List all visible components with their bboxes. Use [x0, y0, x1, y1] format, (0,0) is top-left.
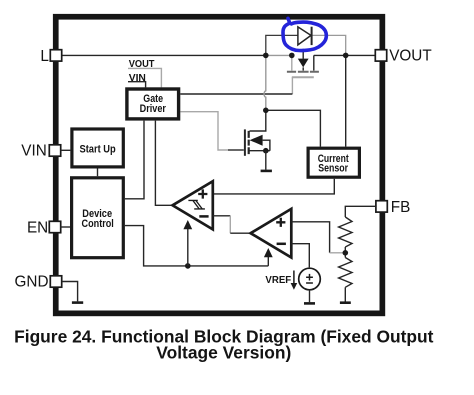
node: switch node junction	[263, 108, 269, 114]
svg-text:Control: Control	[82, 218, 114, 230]
svg-text:VIN: VIN	[21, 143, 47, 160]
blue annotation scribble around diode	[283, 18, 326, 50]
block: Current Sensor	[308, 148, 359, 177]
ground at VREF	[309, 290, 311, 302]
svg-text:VOUT: VOUT	[389, 47, 432, 64]
pin EN	[49, 221, 60, 232]
VREF arrow	[293, 271, 295, 284]
wire: VOUT rail to Current Sensor input 2	[345, 55, 347, 146]
wire: L pin rail to PMOS source	[62, 54, 266, 56]
pin VIN	[49, 145, 60, 156]
wire: VIN pin to Start Up	[61, 149, 71, 151]
pin GND	[50, 276, 61, 287]
transistor Q1 rectifier PMOS	[287, 49, 319, 77]
IC boundary box	[56, 17, 383, 314]
svg-text:L: L	[40, 48, 49, 65]
wire: PMOS drain to VOUT pin	[314, 54, 376, 56]
wire: enable arrow into U2	[267, 257, 269, 266]
wire: Current Sensor output to U1 + input	[213, 179, 334, 194]
svg-text:Voltage Version): Voltage Version)	[156, 342, 291, 362]
wire: enable arrow into U1	[187, 229, 189, 266]
wire: U1 - input to U2 output	[213, 215, 231, 217]
node: divider junction	[343, 250, 349, 256]
block: Start Up	[72, 129, 123, 167]
op-amp U2 error comparator	[251, 209, 292, 258]
wire: diode cathode branch	[312, 35, 345, 55]
wire: Q1 gate to Gate Driver	[291, 77, 293, 94]
ground at Q2 source	[265, 151, 267, 170]
block: Gate Driver	[127, 89, 179, 119]
block: Device Control	[72, 178, 124, 258]
wire: enable rail from Device Control	[125, 226, 268, 266]
diode D1 (body diode)	[298, 27, 312, 45]
svg-text:EN: EN	[27, 219, 48, 236]
wire: Gate Driver to comparator U1 output	[155, 121, 172, 206]
ground at divider	[340, 301, 351, 304]
ground at GND pin	[72, 301, 83, 304]
wire: switch node to Current Sensor input 1	[266, 110, 321, 146]
node: Q2 source junction	[263, 148, 269, 154]
resistor R1	[339, 217, 352, 247]
svg-text:Driver: Driver	[140, 103, 166, 115]
node: junction dots on top rail	[263, 53, 269, 59]
wire: switch node down to NMOS drain	[264, 55, 266, 110]
svg-text:FB: FB	[391, 199, 411, 216]
transistor Q2 main switch NMOS	[180, 112, 270, 156]
wire: FB pin to divider	[345, 206, 376, 217]
pin FB	[376, 201, 387, 212]
wire: VIN supply into Gate Driver	[128, 82, 146, 88]
wire: U2 + input from feedback divider	[291, 222, 329, 253]
pin L	[50, 50, 61, 61]
wire: VOUT supply into Gate Driver	[128, 68, 161, 87]
wire: EN pin to Device Control	[60, 226, 70, 228]
pin VOUT	[375, 50, 386, 61]
wire: Device Control to Gate Driver	[125, 121, 144, 199]
svg-text:Start Up: Start Up	[80, 144, 117, 156]
wire: diode anode branch	[266, 35, 298, 55]
op-amp U1 PWM comparator with hysteresis	[173, 181, 213, 229]
svg-text:VREF: VREF	[265, 275, 291, 286]
node: enable rail junction	[185, 263, 191, 269]
voltage source VREF	[299, 268, 321, 290]
svg-text:GND: GND	[15, 274, 49, 291]
svg-text:Sensor: Sensor	[318, 163, 348, 175]
resistor R2	[339, 258, 352, 288]
wire: GND pin to ground	[62, 282, 78, 302]
wire: Start Up to Device Control	[97, 168, 99, 176]
wire: U2 - input from VREF	[291, 244, 309, 268]
